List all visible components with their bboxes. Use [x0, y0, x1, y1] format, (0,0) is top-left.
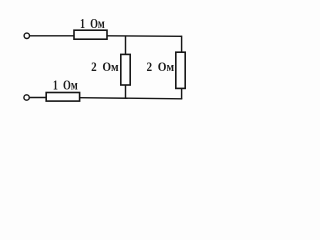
svg-text:2 Ом: 2 Ом: [91, 60, 119, 74]
svg-text:2 Ом: 2 Ом: [147, 60, 175, 74]
svg-text:1 Ом: 1 Ом: [80, 17, 105, 32]
svg-text:1 Ом: 1 Ом: [53, 78, 78, 93]
